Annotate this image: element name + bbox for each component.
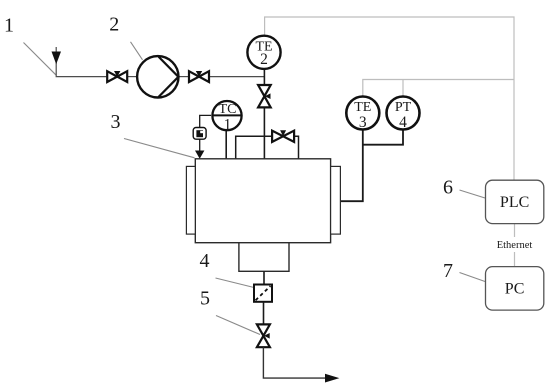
bypass pipe left (236, 136, 272, 159)
leader line 2 (131, 42, 143, 60)
svg-text:2: 2 (260, 51, 268, 68)
PC box (486, 267, 544, 311)
leader line 7 (460, 273, 486, 282)
leader line 3 (124, 139, 195, 158)
leader line 5 (216, 316, 260, 335)
instrument TC1 (212, 101, 242, 133)
filter F (254, 285, 272, 302)
signal wire TE2 to PLC (265, 17, 514, 180)
instrument PT4 (387, 97, 420, 131)
svg-text:TE: TE (354, 100, 371, 115)
pipe valve1 to pump (128, 76, 137, 78)
svg-text:PT: PT (395, 100, 412, 115)
svg-text:4: 4 (399, 114, 407, 131)
svg-text:4: 4 (200, 250, 210, 272)
svg-text:Ethernet: Ethernet (497, 240, 533, 251)
sensor icon (193, 128, 206, 140)
svg-text:PLC: PLC (500, 194, 529, 211)
inlet arrow (52, 52, 62, 65)
pipe pump to valve2 (178, 76, 188, 78)
signal wire PT4 riser (402, 80, 404, 96)
valve V5 (257, 324, 270, 347)
signal wire PLC to PC (Ethernet) (514, 224, 516, 237)
svg-text:6: 6 (443, 177, 453, 199)
PLC box (486, 180, 544, 223)
signal wire TE3 to PLC (363, 80, 514, 96)
svg-text:5: 5 (200, 288, 210, 310)
svg-text:TC: TC (219, 102, 237, 117)
valve V1 (107, 71, 127, 82)
pump P (137, 56, 178, 97)
svg-text:7: 7 (443, 260, 453, 282)
svg-text:3: 3 (111, 111, 121, 133)
leader line 6 (460, 190, 486, 198)
outlet arrow (325, 374, 339, 383)
tank body (195, 159, 330, 243)
inlet pipe (56, 47, 106, 77)
tank left flange (186, 166, 195, 234)
stem TC1 to tank (225, 131, 227, 159)
sensor well arrow (195, 151, 204, 159)
svg-text:2: 2 (109, 14, 119, 36)
tank right flange (331, 166, 341, 234)
bypass pipe right (295, 136, 299, 159)
pipe valve2 to TE2 junction (210, 76, 265, 78)
instrument TE3 (346, 97, 379, 131)
svg-text:3: 3 (359, 114, 367, 131)
valve V2 (189, 71, 209, 82)
svg-text:PC: PC (505, 281, 525, 298)
valve V3 (258, 85, 271, 107)
stem TE3 to tank nozzle (341, 131, 363, 202)
valve V4 (272, 130, 294, 142)
pipe outlet box to filter (263, 271, 265, 284)
instrument TE2 (247, 36, 280, 69)
outlet box (239, 243, 289, 272)
pipe filter to valve V5 (263, 302, 265, 325)
leader line 1 (24, 43, 56, 75)
svg-text:1: 1 (4, 15, 14, 37)
capillary TC1 to sensor (200, 115, 211, 151)
stem PT4 (363, 131, 403, 145)
svg-text:1: 1 (224, 116, 232, 133)
outlet pipe (263, 347, 326, 378)
vertical pipe TE2 to tank (263, 70, 265, 159)
leader line 4 (216, 278, 255, 288)
